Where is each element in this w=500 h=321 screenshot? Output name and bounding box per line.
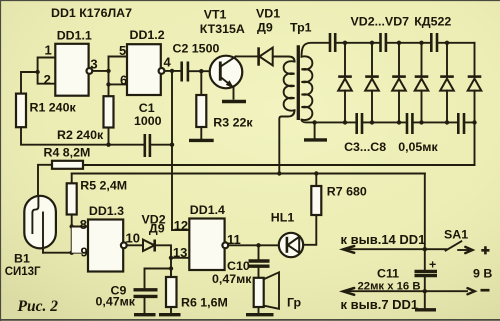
node junction pins1-2 [35,70,39,74]
diode VD6 [440,43,454,123]
resistor R3 [196,95,206,127]
wire R1 bottom [21,127,145,145]
op-amp gate DD1.3 [88,220,123,272]
wire R6 top [170,269,172,278]
wire R3 bottom [200,127,202,139]
wire R6 ground [170,307,172,313]
capacitor C2 [182,62,188,82]
svg-text:SA1: SA1 [444,228,468,242]
ground R3 [189,139,214,142]
wire R7 top [315,174,317,187]
diode VD7 [468,43,482,165]
svg-text:C10: C10 [227,259,250,273]
arrow plus [458,249,471,251]
wire top rail [335,42,474,44]
diode VD3 [365,43,379,123]
wire R5 bottom [71,215,73,253]
diode VD1 [259,47,273,65]
node bottom rail junctions [343,120,477,124]
capacitor C5 [381,33,386,52]
svg-text:0,05мк: 0,05мк [398,140,438,154]
wire to ground [314,122,316,138]
svg-text:КТ315А: КТ315А [200,22,245,36]
LED HL1 [279,233,303,257]
resistor R6 [166,277,177,307]
node pin8 [70,224,74,228]
svg-text:R1 240к: R1 240к [30,101,77,115]
wire bottom rail [315,121,475,123]
svg-text:VD2...VD7: VD2...VD7 [351,15,410,29]
inverter bubble DD1.4 [222,242,228,248]
resistor R5 [67,183,77,214]
svg-text:9 В: 9 В [473,267,492,281]
wire R3 top [200,71,202,95]
ground C11 [415,308,436,311]
wire C10 to speaker [258,268,260,278]
diode VD4 [392,43,406,123]
svg-text:C2 1500: C2 1500 [173,42,220,56]
node SA1 [423,247,427,251]
node pin6 junction [106,82,110,86]
node C1 junction [170,143,174,147]
svg-text:Рис. 2: Рис. 2 [18,298,59,315]
svg-text:VT1: VT1 [204,8,227,22]
wire C9 branch [145,269,172,289]
svg-text:Д9: Д9 [149,222,165,236]
svg-text:C11: C11 [377,267,399,281]
wire R2 bottom [108,128,110,145]
wire R4 to lamp [38,165,52,197]
svg-text:2,4М: 2,4М [100,179,128,193]
wire output 3 [92,70,108,72]
svg-text:R4 8,2М: R4 8,2М [44,146,91,160]
wire HV line A [83,164,474,166]
wire input loop pins 1-2 [38,58,56,84]
node 4 junction [170,69,174,73]
svg-text:3: 3 [90,57,97,72]
wire VD1 to primary [273,57,295,62]
svg-text:С3...С8: С3...С8 [344,140,386,154]
svg-text:DD1.2: DD1.2 [130,28,165,42]
capacitor C3 [330,33,335,52]
wire C10 [258,245,260,259]
label plus terminal [481,246,489,254]
arrow left pin14 [343,246,354,253]
svg-text:DD1.4: DD1.4 [190,203,225,217]
svg-text:R5: R5 [80,179,96,193]
svg-text:DD1.1: DD1.1 [57,29,92,43]
svg-text:Гр: Гр [287,296,302,310]
svg-text:VD1: VD1 [256,7,280,21]
wire bus to C11 [424,174,426,271]
wire secondary bottom [302,120,315,123]
resistor R1 [16,94,26,128]
svg-text:HL1: HL1 [271,211,295,225]
node top rail junctions [343,41,449,45]
wire C9 ground [144,298,146,313]
wire lamp to pin9 [43,252,88,254]
diode VD5 [415,43,429,123]
wire emitter down [233,88,235,99]
wire pin 6 [109,83,128,85]
speaker Гр [254,272,279,309]
svg-text:R6 1,6М: R6 1,6М [181,296,228,310]
switch SA1 [425,241,462,250]
svg-text:DD1 К176ЛА7: DD1 К176ЛА7 [51,6,132,20]
capacitor C11 [415,271,438,275]
inverter bubble DD1.3 [121,242,127,248]
node R3 junction [199,69,203,73]
svg-text:+: + [429,258,436,272]
wire speaker ground [258,307,260,313]
wire pin 12 [172,229,189,231]
wire vertical to pins 5,6 [108,57,110,97]
wire primary bottom [279,110,294,173]
wire output 4 [164,70,181,72]
transformer Tr1 primary winding [284,61,295,110]
ground R6 [159,313,181,316]
wire R5 top [71,174,73,184]
wire secondary top [302,43,330,57]
wire C11 bottom [424,277,426,308]
node R7-bus [314,171,318,175]
wire collector [236,55,259,57]
capacitor C6 [407,113,412,134]
wire HL1 to R7 [303,215,316,245]
wire node4 vertical [171,71,173,230]
capacitor C7 [431,33,437,52]
resistor R2 [104,96,114,127]
wire VD2 to node13 [155,245,171,277]
ground speaker [246,313,274,316]
svg-text:5: 5 [119,43,126,58]
svg-text:C1: C1 [139,101,155,115]
arrow left pin7 [343,288,354,295]
svg-text:1000: 1000 [134,114,162,128]
lamp B1 [24,196,56,253]
wire bus B [72,173,425,175]
svg-text:В1: В1 [14,252,30,266]
svg-text:R3 22к: R3 22к [213,116,253,130]
wire supply minus line [344,290,467,292]
wire R1 to inputs [21,72,38,94]
diode VD2 [143,240,155,252]
ground secondary [304,138,327,141]
resistor R7 [311,186,321,215]
inverter bubble DD1.2 [159,68,165,74]
svg-text:Тр1: Тр1 [290,21,312,35]
svg-text:13: 13 [173,245,187,260]
node 13 [169,256,173,260]
svg-text:СИ13Г: СИ13Г [5,266,41,278]
node minus line [423,289,427,293]
ground emitter [222,100,246,103]
node R2-C1 [106,143,110,147]
node secondary-ground [312,120,316,124]
svg-text:R2 240к: R2 240к [57,128,104,142]
node 3 junction [106,69,110,73]
capacitor C8 [458,113,464,134]
svg-text:Д9: Д9 [257,21,273,35]
capacitor C10 [249,261,270,266]
inverter bubble DD1.1 [87,68,93,74]
capacitor C9 [134,290,158,297]
wire C2 to base [188,70,219,72]
ground C9 [134,313,156,316]
transformer secondary winding [302,56,313,120]
node pin9 [70,251,74,255]
wire output 10 [127,244,143,246]
svg-text:0,47мк: 0,47мк [212,272,252,286]
op-amp gate DD1.1 [55,44,88,96]
svg-text:4: 4 [164,55,172,70]
node C9 branch [169,266,173,270]
svg-text:к выв.7 DD1: к выв.7 DD1 [341,297,419,312]
op-amp gate DD1.4 [189,219,224,271]
arrow right minus [468,288,475,294]
transistor VT1 [210,56,243,89]
wire C1 right [150,144,172,146]
wire pin 13 [171,257,189,259]
wire output 11 [228,244,279,246]
transformer core [297,45,300,120]
svg-text:0,47мк: 0,47мк [96,295,136,309]
svg-text:2: 2 [44,72,51,87]
svg-text:1: 1 [45,43,52,58]
node primary-bus [277,171,281,175]
capacitor C4 [357,113,362,134]
svg-text:к выв.14 DD1: к выв.14 DD1 [341,232,426,247]
svg-text:8: 8 [80,217,87,232]
label minus terminal [481,289,490,292]
svg-text:10: 10 [126,231,140,246]
node 11 [256,243,260,247]
svg-text:9: 9 [81,245,88,260]
diode VD2a [338,43,352,123]
op-amp gate DD1.2 [127,44,161,95]
capacitor C1 [145,134,150,157]
svg-text:R7 680: R7 680 [327,185,367,199]
wire supply plus line [344,248,425,250]
resistor R4 [52,161,83,169]
svg-text:12: 12 [174,218,188,233]
wire pin 5 [109,56,128,58]
svg-text:КД522: КД522 [414,15,451,29]
svg-text:DD1.3: DD1.3 [89,204,124,218]
wire pin 8 [72,227,88,253]
svg-text:11: 11 [227,232,241,247]
